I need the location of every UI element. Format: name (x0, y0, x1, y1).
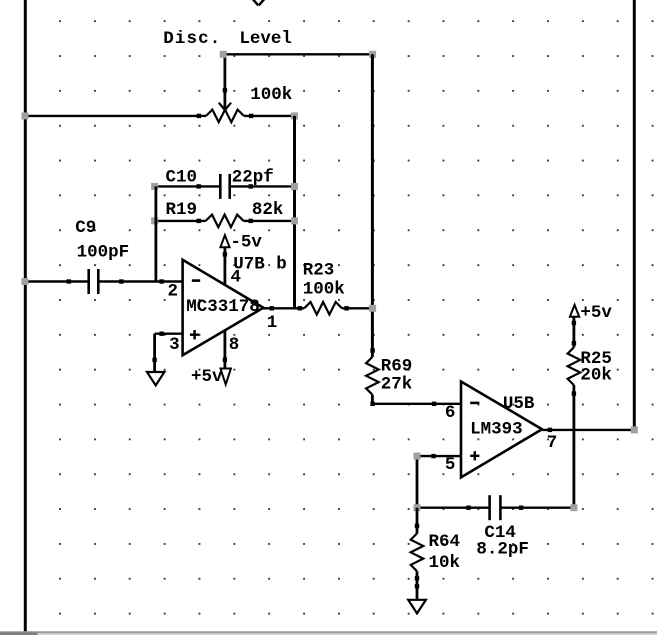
power symbol +5v (down arrow) (221, 369, 231, 385)
pin dot: R69 bottom corner (370, 402, 374, 406)
plus symbol U7B (190, 334, 199, 336)
pin dot: pin7 (548, 428, 552, 432)
pin dot: C14 right (519, 506, 523, 510)
wire: pin 3 to ground (155, 333, 182, 335)
pin dot: C10 left (197, 184, 201, 188)
svg-text:100pF: 100pF (77, 242, 130, 262)
svg-text:1: 1 (267, 313, 278, 333)
pin dot: pin6 (432, 402, 436, 406)
wire: pin 4 to -5v arrow (223, 247, 226, 286)
pin dot: pin3 (159, 332, 163, 336)
pin dot: pin5 (431, 454, 435, 458)
resistor R64 10k (416, 508, 419, 534)
power arrow (cut off at top edge) (252, 0, 259, 5)
svg-text:C10: C10 (166, 168, 198, 188)
resistor R69 27k (366, 357, 379, 395)
pin dot: ground lead (152, 358, 156, 362)
svg-text:b: b (276, 255, 287, 275)
junction: pot right corner (291, 112, 298, 119)
svg-text:+5v: +5v (580, 303, 612, 323)
pin dot: C9 right (119, 279, 123, 283)
plus symbol U5B (470, 455, 479, 457)
pin dot: C10 right (249, 184, 253, 188)
svg-text:5: 5 (445, 455, 456, 475)
svg-text:10k: 10k (429, 553, 461, 573)
pin dot: pin1 output (270, 306, 274, 310)
minus symbol U5B (470, 402, 479, 405)
junction: R23 right at vertical (369, 305, 376, 312)
svg-text:LM393: LM393 (470, 419, 523, 439)
svg-text:20k: 20k (580, 366, 612, 386)
pin dot: R64 wire end (415, 584, 419, 588)
wire: feedback vertical to inverting input (154, 186, 157, 281)
wire: Disc. Level horizontal segment (223, 53, 372, 55)
pin dot: R25 upper lead inner (572, 341, 576, 345)
junction: pin2 wire at left border (21, 278, 28, 285)
svg-text:-5v: -5v (230, 232, 262, 252)
svg-text:8.2pF: 8.2pF (476, 540, 529, 560)
svg-text:27k: 27k (381, 375, 413, 395)
svg-text:7: 7 (547, 433, 558, 453)
wire: pot wiper vertical (223, 54, 226, 108)
pin dot: op-amp pin2 (159, 279, 163, 283)
wire: pot horizontal (left border to right corner) (24, 115, 206, 117)
junction: C14 right corner (570, 504, 577, 511)
svg-text:3: 3 (169, 335, 180, 355)
pin dot: R69 top (370, 348, 374, 352)
capacitor C14 8.2pF (417, 507, 489, 509)
svg-text:+5v: +5v (191, 367, 223, 387)
svg-text:100k: 100k (250, 85, 292, 105)
svg-text:100k: 100k (303, 280, 345, 300)
power symbol -5v (up arrow) (220, 235, 229, 247)
svg-text:C9: C9 (75, 218, 96, 238)
wire: vertical Disc.Level net down to R69 (371, 54, 374, 357)
comparator U5B LM393 body (461, 382, 542, 478)
svg-text:2: 2 (168, 281, 179, 301)
op-amp U7B MC33178 body (183, 260, 264, 355)
pin dot: R25 bottom lead (572, 391, 576, 395)
capacitor C9 100pF (24, 280, 88, 282)
pin dot: R19 left (197, 219, 201, 223)
resistor R23 100k (304, 302, 342, 315)
pin dot: R23 left (298, 306, 302, 310)
power symbol +5v (up arrow, R25) (570, 305, 579, 317)
pin dot: R64 top (415, 524, 419, 528)
junction: wire end at (223,54) (220, 51, 227, 58)
wire: comparator output pin 7 (542, 429, 634, 431)
svg-text:U5B: U5B (503, 394, 535, 414)
pin dot: R25 top lead (572, 321, 576, 325)
junction: wire end at (372.6,54) (369, 51, 376, 58)
pin dot: R19 right (249, 219, 253, 223)
junction: C10 left end (151, 183, 158, 190)
pin dot: pin4 (223, 252, 227, 256)
junction: left border / pot wire (21, 112, 28, 119)
pin dot: R23 right (344, 306, 348, 310)
junction: R19 right end (291, 217, 298, 224)
svg-text:R64: R64 (429, 532, 461, 552)
svg-text:R23: R23 (303, 260, 335, 280)
svg-text:MC33178: MC33178 (186, 297, 260, 317)
wire: right vertical (comparator output net) (633, 0, 636, 430)
bottom window edge bar (0, 631, 657, 633)
wire: vertical from pot right down to op-amp output (293, 116, 296, 308)
svg-text:8: 8 (229, 335, 240, 355)
capacitor C10 22pf (155, 185, 220, 187)
pin dot: pin8 (223, 358, 227, 362)
potentiometer 100k wiper arrowhead (219, 103, 225, 110)
ground symbol (below R64) (408, 600, 426, 614)
potentiometer R 100k body (206, 110, 244, 123)
junction: output right corner (631, 426, 638, 433)
wire: pin 8 to +5v arrow (223, 331, 226, 369)
junction: C14 left corner (414, 504, 421, 511)
pin dot: wiper lead (223, 88, 227, 92)
junction: R19 left end (151, 217, 158, 224)
svg-text:Disc.: Disc. (163, 29, 221, 49)
wire: op-amp output to R23 (262, 307, 304, 309)
svg-text:R69: R69 (381, 357, 413, 377)
wire: R69 to comparator pin 6 (372, 403, 461, 405)
svg-text:4: 4 (231, 268, 242, 288)
pin dot: C14 left (466, 506, 470, 510)
pin dot: C9 left (67, 279, 71, 283)
resistor R19 82k (155, 220, 206, 222)
resistor R25 20k (568, 347, 581, 385)
svg-text:Level: Level (239, 29, 292, 49)
junction: pin5 corner (414, 453, 421, 460)
wire: left vertical bus (input net) (24, 0, 27, 632)
wire: R25 bottom to C14 right (573, 385, 576, 508)
ground symbol (below pin 3) (147, 372, 164, 385)
minus symbol U7B (192, 279, 200, 282)
junction: C10 right end (291, 183, 298, 190)
svg-text:R19: R19 (166, 200, 198, 220)
wire: +5v to R25 (573, 317, 576, 348)
pin dot: pot left (197, 114, 201, 118)
wire: pin 5 feedback (417, 455, 461, 457)
svg-text:6: 6 (445, 403, 456, 423)
pin dot: R64 bottom (415, 576, 419, 580)
pin dot: pot right (249, 114, 253, 118)
svg-text:82k: 82k (252, 200, 284, 220)
